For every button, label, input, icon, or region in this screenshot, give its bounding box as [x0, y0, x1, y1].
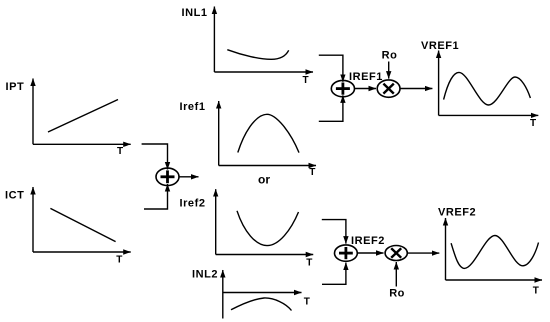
graph INL2 y-axis: [222, 270, 224, 319]
ICT curve (falling line): [50, 208, 115, 241]
svg-text:T: T: [116, 255, 122, 266]
VREF2 curve (wave): [451, 236, 538, 269]
wire S2 to multiplier M1: [355, 88, 377, 90]
svg-text:VREF1: VREF1: [421, 40, 459, 52]
summing junction S1: [156, 168, 179, 185]
wire ICT to summer S1: [144, 184, 168, 209]
svg-text:T: T: [117, 146, 123, 157]
graph VREF1 y-axis: [438, 51, 440, 116]
wire IPT to summer S1: [142, 144, 168, 170]
svg-text:T: T: [304, 297, 310, 308]
graph IPT x-axis: [33, 143, 131, 145]
wire INL1 to summer S2: [319, 55, 343, 82]
IPT curve (rising line): [48, 100, 118, 133]
graph INL1 x-axis: [214, 71, 313, 73]
svg-text:T: T: [303, 75, 309, 86]
graph Iref1 x-axis: [219, 165, 316, 167]
graph VREF1 x-axis: [439, 114, 539, 116]
wire M2 to VREF2 graph: [407, 252, 439, 254]
svg-text:T: T: [533, 285, 539, 296]
graph VREF2 y-axis: [445, 218, 447, 280]
svg-text:T: T: [530, 118, 536, 129]
multiplier M1: [377, 80, 400, 97]
svg-text:VREF2: VREF2: [438, 207, 476, 219]
svg-text:INL1: INL1: [182, 7, 208, 19]
svg-text:ICT: ICT: [5, 190, 24, 202]
graph INL2 x-axis: [223, 292, 302, 294]
summing junction S3: [335, 245, 358, 261]
INL2 curve (hump below axis): [231, 298, 292, 311]
svg-text:T: T: [309, 167, 315, 178]
INL1 curve (shallow dip with up-hook): [227, 50, 288, 60]
svg-text:T: T: [306, 258, 312, 269]
wire Ro to M1: [388, 62, 390, 79]
svg-text:Ro: Ro: [389, 288, 405, 300]
wire S1 output: [179, 176, 199, 178]
wire INL2 to summer S3: [322, 263, 346, 285]
wire Iref2 to summer S3: [322, 220, 346, 244]
graph Iref1 y-axis: [218, 101, 220, 166]
graph VREF2 x-axis: [446, 279, 543, 281]
svg-text:IREF1: IREF1: [349, 71, 383, 83]
VREF1 curve (wave): [444, 72, 531, 105]
svg-text:Iref2: Iref2: [180, 198, 206, 210]
Iref2 curve (U shape): [237, 211, 299, 246]
wire Ro to M2: [395, 262, 397, 287]
Iref1 curve (hump): [238, 114, 299, 152]
svg-text:Iref1: Iref1: [180, 101, 206, 113]
wire Iref1 to summer S2: [319, 95, 343, 121]
svg-text:or: or: [258, 173, 270, 187]
multiplier M2: [385, 246, 407, 261]
svg-text:INL2: INL2: [192, 269, 218, 281]
svg-text:IREF2: IREF2: [351, 235, 385, 247]
graph ICT y-axis: [32, 187, 34, 252]
graph Iref2 y-axis: [215, 189, 217, 254]
svg-text:Ro: Ro: [382, 50, 398, 62]
graph IPT y-axis: [32, 79, 34, 145]
wire S3 to multiplier M2: [357, 252, 383, 254]
wire M1 to VREF1 graph: [400, 88, 432, 90]
graph Iref2 x-axis: [216, 254, 314, 256]
graph ICT x-axis: [33, 251, 131, 253]
graph INL1 y-axis: [213, 7, 215, 73]
summing junction S2: [331, 80, 354, 96]
svg-text:IPT: IPT: [6, 81, 25, 93]
